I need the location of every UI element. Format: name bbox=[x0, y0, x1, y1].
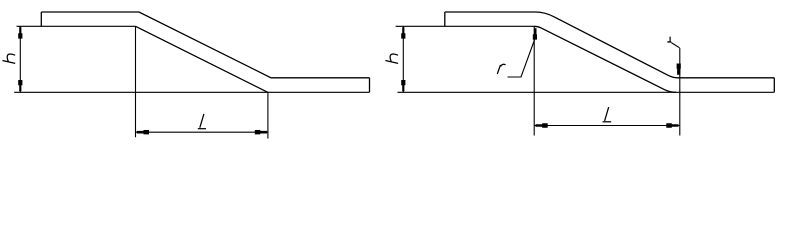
dimension h (right): label "h" bbox=[385, 54, 398, 63]
right part: lower slant surface with bend radii bbox=[534, 26, 676, 92]
dimension h (left): lower arrowhead bbox=[18, 80, 22, 91]
left part: right end cap bbox=[369, 78, 371, 93]
dimension h (right): lower arrowhead bbox=[401, 80, 405, 91]
dimension h (right): dimension line bbox=[402, 26, 404, 92]
left part: bottom surface of top flange (extended left as h extension line) bbox=[17, 25, 136, 27]
dimension L (left): right extension line bbox=[267, 92, 269, 138]
right part: top surface with bend radii bbox=[445, 12, 775, 78]
radius r (lower bend): label "r" (rotated) bbox=[667, 37, 671, 43]
dimension h (right): upper arrowhead bbox=[401, 27, 405, 38]
dimension L (left): left extension line bbox=[135, 26, 137, 137]
left part: left end cap bbox=[40, 12, 42, 26]
radius r (lower bend): leader line bbox=[671, 43, 679, 48]
radius r (lower bend): arrowhead bbox=[677, 64, 681, 75]
left part: lower slant surface bbox=[136, 26, 268, 92]
radius r (upper bend): label "r" bbox=[497, 64, 505, 74]
dimension L (right): right extension line (also r leader vertical) bbox=[679, 48, 681, 136]
dimension h (left): upper arrowhead bbox=[18, 27, 22, 38]
left part: bottom surface baseline (extended left as h extension line) bbox=[14, 91, 369, 93]
right part: bottom surface of top flange (extended left as h extension line) bbox=[396, 25, 535, 27]
radius r (upper bend): leader line bbox=[508, 39, 536, 78]
right part: bottom surface baseline (extended left as h extension line) bbox=[398, 91, 775, 93]
dimension L (right): dimension line bbox=[534, 125, 680, 127]
dimension L (right): left arrowhead bbox=[536, 123, 548, 127]
dimension h (left): dimension line bbox=[19, 26, 21, 92]
dimension L (left): right arrowhead bbox=[255, 130, 267, 134]
dimension L (right): label "L" bbox=[603, 107, 612, 122]
left part: top surface (top flange, slant, bottom flange) bbox=[41, 12, 369, 78]
dimension h (left): label "h" bbox=[3, 54, 16, 63]
right part: right end cap bbox=[773, 78, 775, 93]
right part: left end cap bbox=[444, 12, 446, 26]
dimension L (left): left arrowhead bbox=[137, 130, 149, 134]
dimension L (left): dimension line bbox=[136, 131, 268, 133]
dimension L (right): right arrowhead bbox=[666, 123, 678, 127]
dimension L (left): label "L" bbox=[198, 114, 206, 129]
radius r (upper bend): arrowhead bbox=[533, 28, 537, 39]
dimension L (right): left extension line bbox=[533, 26, 535, 135]
